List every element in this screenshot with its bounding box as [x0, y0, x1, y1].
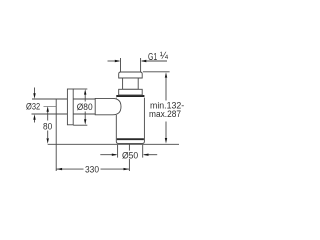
svg-text:Ø80: Ø80 [77, 102, 93, 112]
dimension Ø32 [34, 88, 36, 123]
wire: pipe top edge + Ø32 extension [32, 98, 95, 100]
wire: pipe bottom edge + Ø32 extension [32, 113, 96, 115]
wire: pipe centerline stub [44, 106, 57, 108]
lower nut flange [119, 89, 143, 95]
Ø50 dim line left [100, 154, 116, 156]
body top shoulder (thick) [116, 95, 144, 97]
nut neck [123, 78, 139, 89]
svg-text:¼: ¼ [160, 50, 169, 62]
330 dim line [56, 168, 83, 170]
cup bottom joint line (thick) [117, 138, 144, 140]
Ø80 ext line top [73, 88, 87, 90]
Ø32 arrow top [33, 93, 35, 98]
min/max top ext line [143, 71, 170, 73]
dimension min.132-max.287 [143, 72, 170, 139]
G1 ext line right [140, 58, 142, 72]
dimension Ø80 [73, 89, 87, 125]
cup-bottom extension line (shared by 80 and min/max dims) [48, 143, 179, 145]
wire: pipe left end cap + 330 left extension line [55, 99, 57, 171]
dimension Ø50 [100, 145, 157, 158]
Ø50 ext line right [142, 145, 144, 158]
G1 dim line right [142, 60, 167, 62]
Ø50 ext line left [117, 145, 119, 158]
dimension 330 [56, 144, 129, 171]
Ø80 dim line [84, 94, 86, 102]
Ø80 ext line bottom [73, 124, 87, 126]
wall flange Ø80 [67, 89, 73, 125]
330 arrow left [56, 168, 62, 170]
Ø50 arrow right [143, 154, 149, 156]
pipe union nut (rounded end at body) [95, 98, 121, 114]
dimension 80 [47, 112, 49, 139]
svg-text:80: 80 [43, 121, 52, 131]
top flange nut [119, 72, 143, 78]
G1 ext line left [120, 58, 122, 72]
trap body cylinder [116, 98, 144, 144]
svg-text:Ø32: Ø32 [26, 102, 40, 112]
G1 arrow left [115, 60, 121, 62]
G1 dim line left [108, 60, 120, 62]
svg-text:330: 330 [85, 164, 99, 174]
svg-text:max.287: max.287 [149, 109, 181, 119]
Ø50 arrow left [112, 154, 118, 156]
min/max arrow down [165, 138, 167, 144]
Ø32 arrow bottom [33, 114, 35, 119]
svg-text:Ø50: Ø50 [122, 150, 138, 160]
min/max arrow up [165, 72, 167, 78]
80 arrow up [47, 106, 49, 112]
Ø50 dim line right [144, 154, 157, 156]
330 arrow right [124, 168, 130, 170]
dimension G1 1/4 [108, 58, 168, 72]
80 arrow down [47, 138, 49, 144]
G1 arrow right [141, 60, 147, 62]
min/max dim line [165, 78, 167, 101]
Ø80 arrow down [84, 119, 86, 125]
330 right ext line (body centerline) [128, 144, 130, 150]
svg-text:G1: G1 [148, 52, 157, 63]
Ø80 arrow up [84, 89, 86, 95]
